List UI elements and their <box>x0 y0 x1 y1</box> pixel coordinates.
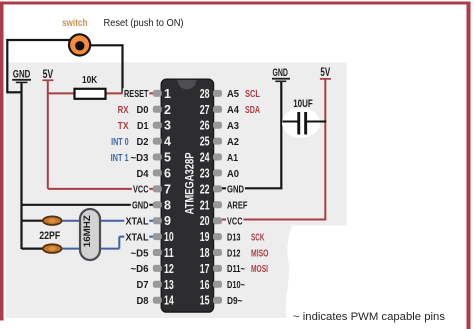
svg-text:12: 12 <box>164 262 174 276</box>
wire 5V rail right vertical <box>324 80 326 220</box>
pin stub left 10 <box>153 233 162 240</box>
capacitor C1 22pF <box>43 216 62 225</box>
svg-text:SCK: SCK <box>251 231 265 243</box>
IC notch <box>178 80 197 90</box>
switch S1 push button <box>69 34 90 55</box>
svg-text:28: 28 <box>200 87 210 101</box>
svg-text:10K: 10K <box>82 74 98 86</box>
svg-text:GND: GND <box>13 69 31 81</box>
svg-text:D2: D2 <box>137 136 149 148</box>
wire resistor R1 to RESET pin 1 <box>106 92 154 94</box>
svg-text:11: 11 <box>164 246 174 260</box>
svg-text:17: 17 <box>200 262 210 276</box>
wire 22pF C1 left lead <box>22 220 45 222</box>
label GND pin22 <box>226 184 245 196</box>
svg-text:8: 8 <box>164 198 171 212</box>
svg-text:6: 6 <box>164 166 171 180</box>
pin stub left 1 <box>153 90 162 97</box>
wire XTAL1 blue pin9 <box>61 220 154 222</box>
svg-text:5V: 5V <box>320 67 330 79</box>
svg-text:13: 13 <box>164 278 174 292</box>
svg-text:D1: D1 <box>137 120 149 132</box>
label XTAL pin10 <box>124 231 149 243</box>
svg-text:19: 19 <box>200 230 210 244</box>
border frame top <box>0 2 469 5</box>
svg-text:22: 22 <box>200 182 210 196</box>
pin stub right 20 <box>213 217 222 224</box>
wire switch right vertical down to reset <box>121 44 123 93</box>
wire 5V rail left vertical <box>47 81 49 189</box>
pin stub right 27 <box>213 106 222 113</box>
svg-text:RX: RX <box>118 104 129 116</box>
pin stub left 3 <box>153 122 162 129</box>
pin stub left 9 <box>153 217 162 224</box>
white patch behind capacitor C3 <box>282 108 320 138</box>
pin stub left 14 <box>153 297 162 304</box>
svg-text:10UF: 10UF <box>293 98 313 110</box>
pin stub right 26 <box>213 122 222 129</box>
wire switch top-left horizontal <box>6 39 70 41</box>
svg-text:SDA: SDA <box>245 104 260 116</box>
svg-text:D13: D13 <box>227 231 241 243</box>
wire switch loop left vertical <box>6 39 8 92</box>
svg-text:~D6: ~D6 <box>131 263 149 275</box>
capacitor C3 10UF leads <box>282 121 326 123</box>
pin stub right 21 <box>213 201 222 208</box>
pin stub right 23 <box>213 169 222 176</box>
wire XTAL2 blue vertical step <box>118 237 120 249</box>
svg-text:INT 0: INT 0 <box>111 136 129 148</box>
svg-text:RESET: RESET <box>124 88 149 100</box>
svg-text:16: 16 <box>200 278 210 292</box>
wire GND pin8 black <box>22 204 154 206</box>
svg-text:22PF: 22PF <box>39 230 60 242</box>
pin stub left 7 <box>153 185 162 192</box>
pin stub right 17 <box>213 265 222 272</box>
svg-text:AREF: AREF <box>227 200 248 212</box>
op IC U1 ATMEGA328P body <box>161 79 213 312</box>
svg-text:7: 7 <box>164 182 171 196</box>
svg-text:16MHZ: 16MHZ <box>82 215 93 247</box>
svg-text:switch: switch <box>62 17 88 29</box>
pin stub right 24 <box>213 154 222 161</box>
wire GND right to pin22 <box>222 187 282 189</box>
svg-text:A0: A0 <box>227 168 239 180</box>
svg-text:25: 25 <box>200 135 210 149</box>
svg-text:20: 20 <box>200 214 210 228</box>
wire switch right horizontal <box>90 44 123 46</box>
svg-text:XTAL: XTAL <box>126 231 150 243</box>
wire switch loop bottom to GND stem <box>6 91 21 93</box>
border frame left <box>0 2 4 321</box>
svg-text:GND: GND <box>272 67 288 79</box>
pin stub left 6 <box>153 169 162 176</box>
svg-text:A3: A3 <box>227 120 239 132</box>
svg-text:~D3: ~D3 <box>131 152 149 164</box>
svg-text:14: 14 <box>164 294 174 308</box>
svg-text:1: 1 <box>164 87 171 101</box>
label VCC pin20 <box>226 216 244 228</box>
ground symbol right <box>272 67 290 82</box>
pin stub left 5 <box>153 154 162 161</box>
svg-text:9: 9 <box>164 214 171 228</box>
pin stub right 19 <box>213 233 222 240</box>
svg-text:15: 15 <box>200 294 210 308</box>
svg-text:TX: TX <box>118 120 129 132</box>
wire GND stem left vertical <box>20 83 22 249</box>
wire 5V to resistor R1 <box>48 92 75 94</box>
svg-text:21: 21 <box>200 198 210 212</box>
power label 5V left <box>42 69 53 81</box>
wire VCC right to pin20 <box>222 219 326 221</box>
capacitor C3 plates <box>297 112 300 135</box>
svg-text:3: 3 <box>164 119 171 133</box>
svg-text:MISO: MISO <box>251 247 269 259</box>
svg-text:A1: A1 <box>227 152 238 164</box>
wire 22pF C2 left lead <box>22 248 45 250</box>
pin stub right 18 <box>213 249 222 256</box>
pin stub left 13 <box>153 281 162 288</box>
svg-text:D12: D12 <box>227 247 241 259</box>
svg-text:D8: D8 <box>137 295 149 307</box>
wire XTAL2 blue to pin10 <box>119 236 153 238</box>
svg-text:D10~: D10~ <box>227 279 245 291</box>
pin stub left 2 <box>153 106 162 113</box>
svg-text:2: 2 <box>164 103 171 117</box>
wire GND stem right vertical <box>280 82 282 188</box>
label XTAL pin9 <box>124 216 149 228</box>
svg-text:23: 23 <box>200 166 210 180</box>
svg-text:D4: D4 <box>137 168 149 180</box>
pin stub right 22 <box>213 185 222 192</box>
svg-text:18: 18 <box>200 246 210 260</box>
pin stub left 12 <box>153 265 162 272</box>
label VCC pin7 <box>132 184 150 196</box>
svg-text:D0: D0 <box>137 104 149 116</box>
svg-text:5: 5 <box>164 151 171 165</box>
svg-text:INT 1: INT 1 <box>111 152 129 164</box>
pin stub right 28 <box>213 90 222 97</box>
svg-text:26: 26 <box>200 119 210 133</box>
svg-text:Reset (push to ON): Reset (push to ON) <box>104 18 184 29</box>
svg-text:A2: A2 <box>227 136 239 148</box>
pin stub right 25 <box>213 138 222 145</box>
power label 5V right <box>320 67 331 80</box>
border frame right <box>467 2 471 329</box>
svg-text:~D5: ~D5 <box>131 247 149 259</box>
svg-text:5V: 5V <box>43 69 54 81</box>
svg-text:VCC: VCC <box>133 184 149 196</box>
svg-text:~ indicates PWM capable pins: ~ indicates PWM capable pins <box>293 311 445 323</box>
svg-text:D11~: D11~ <box>227 263 245 275</box>
svg-text:GND: GND <box>132 200 149 212</box>
svg-text:24: 24 <box>200 151 210 165</box>
svg-text:MOSI: MOSI <box>251 263 268 275</box>
capacitor C2 22pF <box>43 244 62 253</box>
label GND pin8 <box>131 200 150 212</box>
resistor R1 10K body <box>75 89 106 99</box>
svg-text:10: 10 <box>164 230 174 244</box>
pin stub left 4 <box>153 138 162 145</box>
pin stub right 16 <box>213 281 222 288</box>
pin stub left 11 <box>153 249 162 256</box>
svg-text:SCL: SCL <box>245 88 260 100</box>
pin stub left 8 <box>153 201 162 208</box>
svg-text:GND: GND <box>227 184 244 196</box>
label RESET pin1 <box>123 88 150 100</box>
svg-text:27: 27 <box>200 103 210 117</box>
schematic gray background <box>6 63 347 319</box>
svg-text:XTAL: XTAL <box>126 216 150 228</box>
svg-text:A5: A5 <box>227 88 239 100</box>
svg-text:A4: A4 <box>227 104 239 116</box>
svg-text:VCC: VCC <box>227 216 243 228</box>
svg-text:4: 4 <box>164 135 171 149</box>
wire VCC pin7 red <box>48 188 154 190</box>
svg-text:D7: D7 <box>137 279 149 291</box>
wire XTAL2 blue lower segment <box>61 248 120 250</box>
svg-text:D9~: D9~ <box>227 295 243 307</box>
svg-text:ATMEGA328P: ATMEGA328P <box>182 153 196 215</box>
ground symbol left <box>12 69 31 84</box>
pin stub right 15 <box>213 297 222 304</box>
crystal Y1 16MHZ body <box>80 209 100 260</box>
